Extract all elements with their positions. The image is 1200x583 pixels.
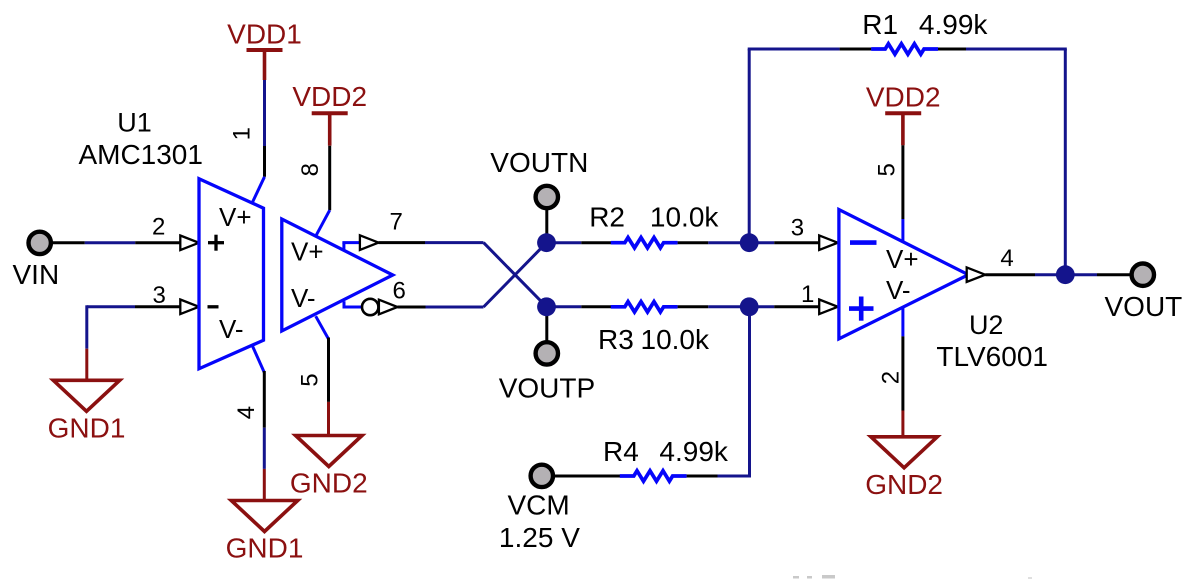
pin arrow U1 pin 3 xyxy=(180,300,199,315)
svg-text:6: 6 xyxy=(393,278,406,305)
junction node R2/R1 xyxy=(740,233,759,252)
pin arrow U2 pin 3 xyxy=(819,235,838,250)
wire R2 to node xyxy=(678,241,750,244)
svg-text:U1: U1 xyxy=(117,108,152,138)
op-amp U1 (AMC1301 isolated amplifier) xyxy=(199,179,393,369)
pin arrow U1 pin 7 xyxy=(360,235,379,250)
svg-text:GND2: GND2 xyxy=(290,468,368,499)
wire U1 pin 3 to GND1 xyxy=(87,305,181,381)
pin arrow U1 pin 2 xyxy=(180,236,199,251)
svg-text:GND1: GND1 xyxy=(48,412,126,443)
wire VDD2 to U1 pin 8 xyxy=(316,146,330,236)
wire VCM to R4 xyxy=(552,475,620,478)
resistor R1 xyxy=(871,44,938,54)
ground GND2 (below U2) xyxy=(871,437,937,468)
wire U2 output to VOUT xyxy=(985,273,1131,276)
svg-text:2: 2 xyxy=(878,371,905,384)
svg-text:5: 5 xyxy=(873,163,900,176)
resistor R2 xyxy=(611,238,678,248)
svg-text:GND2: GND2 xyxy=(865,469,943,500)
wire R4 to R3 node xyxy=(687,307,750,478)
pin arrow U2 pin 4 output xyxy=(967,267,986,282)
terminal VOUTP xyxy=(536,342,558,364)
svg-text:R3: R3 xyxy=(598,324,634,355)
svg-text:VOUT: VOUT xyxy=(1105,291,1183,322)
resistor R4 xyxy=(620,471,687,481)
ground GND1 (left) xyxy=(53,380,119,411)
pin arrow U1 pin 6 xyxy=(379,300,398,315)
wire node to U2 pin 3 xyxy=(749,241,819,244)
wire U1 pin 5 to GND2 xyxy=(316,316,329,436)
svg-text:5: 5 xyxy=(297,373,324,386)
wire R3 to node xyxy=(678,305,750,308)
junction node R3/R4 xyxy=(740,297,759,316)
op-amp U2 (TLV6001) xyxy=(839,210,968,339)
svg-text:1.25 V: 1.25 V xyxy=(499,522,580,553)
svg-text:R2: R2 xyxy=(589,202,625,233)
wire U2 pin 2 to GND2 xyxy=(901,307,904,438)
junction node VOUTN/R2 xyxy=(537,233,556,252)
svg-text:V-: V- xyxy=(291,283,316,313)
svg-text:V+: V+ xyxy=(219,202,252,232)
svg-text:U2: U2 xyxy=(969,310,1004,340)
svg-text:TLV6001: TLV6001 xyxy=(936,341,1048,372)
svg-text:GND1: GND1 xyxy=(226,533,304,564)
svg-text:4: 4 xyxy=(233,406,260,419)
svg-text:R1: R1 xyxy=(862,9,898,40)
junction node VOUTP/R3 xyxy=(537,297,556,316)
power symbol VDD1 xyxy=(247,48,283,52)
svg-text:10.0k: 10.0k xyxy=(641,324,710,355)
wire VOUTP node to R3 xyxy=(547,305,612,308)
svg-text:AMC1301: AMC1301 xyxy=(78,139,203,170)
svg-text:VDD1: VDD1 xyxy=(227,19,302,50)
svg-text:V-: V- xyxy=(219,314,244,344)
ground GND2 (below U1) xyxy=(296,436,362,467)
svg-text:VCM: VCM xyxy=(507,490,569,521)
svg-text:3: 3 xyxy=(791,215,804,242)
svg-text:1: 1 xyxy=(801,281,814,308)
stray cropped marks xyxy=(793,575,1032,579)
svg-text:V-: V- xyxy=(886,275,911,305)
power symbol VDD2 (U2) xyxy=(885,111,921,115)
svg-text:4.99k: 4.99k xyxy=(919,9,988,40)
resistor R3 xyxy=(611,302,678,312)
svg-text:10.0k: 10.0k xyxy=(650,202,719,233)
terminal VIN xyxy=(29,232,51,254)
wire VDD1 to U1 pin 1 xyxy=(252,80,264,203)
svg-text:VDD2: VDD2 xyxy=(866,82,941,113)
svg-text:3: 3 xyxy=(153,282,166,309)
pin arrow U2 pin 1 xyxy=(819,300,838,315)
inversion bubble U1 pin 6 xyxy=(362,299,378,315)
terminal VOUT xyxy=(1132,264,1154,286)
wire R1 feedback loop xyxy=(748,49,1067,266)
svg-text:VOUTN: VOUTN xyxy=(490,147,588,178)
svg-text:4: 4 xyxy=(1000,245,1013,272)
power symbol VDD2 (U1) xyxy=(312,111,348,115)
svg-text:V+: V+ xyxy=(291,236,324,266)
wire VOUTN terminal stub xyxy=(545,208,548,240)
svg-text:VOUTP: VOUTP xyxy=(499,373,595,404)
wire U1 pin 7 to VOUTP node xyxy=(342,243,546,307)
svg-text:VDD2: VDD2 xyxy=(292,81,367,112)
wire VDD2 to U2 pin 5 xyxy=(901,145,904,242)
wire VOUTN node to R2 xyxy=(547,241,612,244)
wire node to U2 pin 1 xyxy=(749,305,819,308)
svg-text:R4: R4 xyxy=(603,436,639,467)
ground GND1 (below U1) xyxy=(231,501,297,532)
svg-text:8: 8 xyxy=(297,163,324,176)
svg-text:4.99k: 4.99k xyxy=(659,436,728,467)
wire U1 pin 4 to GND1 xyxy=(252,345,264,501)
svg-text:2: 2 xyxy=(152,214,165,241)
svg-text:1: 1 xyxy=(228,127,255,140)
wire VIN to U1 pin 2 xyxy=(52,241,181,244)
svg-text:V+: V+ xyxy=(886,244,919,274)
svg-text:VIN: VIN xyxy=(13,259,60,290)
svg-text:7: 7 xyxy=(390,209,403,236)
wire VOUTP terminal stub xyxy=(545,310,548,344)
terminal VOUTN xyxy=(536,186,558,208)
wire U1 pin 6 to VOUTN node xyxy=(343,243,547,307)
terminal VCM xyxy=(531,465,553,487)
junction node VOUT xyxy=(1056,265,1075,284)
